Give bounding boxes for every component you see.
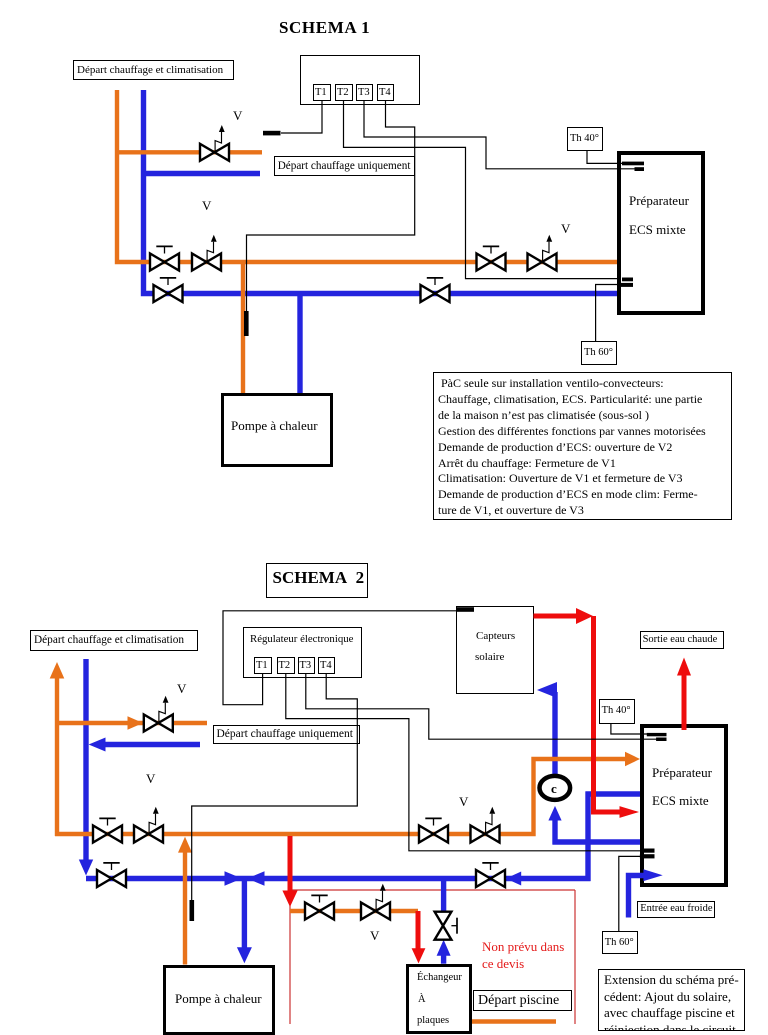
regulator box (schema 1) <box>300 55 420 105</box>
valve motorized V2 (schema 1) <box>528 235 557 271</box>
red note ce devis <box>482 956 524 972</box>
text Capteurs <box>476 630 515 642</box>
valve label V (schema2 branch valve) <box>177 681 186 697</box>
pipe orange drop to heat pump (schema 1) <box>241 262 245 393</box>
red zone border Non prevu (top edge) <box>290 889 575 891</box>
red zone border Non prevu (right edge) <box>574 890 576 1026</box>
wire T3 to tank upper sensor (schema 1) <box>364 100 636 169</box>
red note Non prevu dans <box>482 939 564 955</box>
valve manual on orange main left (schema 1) <box>150 246 179 270</box>
tank connection tick upper-long (schema 2) <box>647 733 667 736</box>
valve motorized orange near tank (schema 2) <box>471 807 500 843</box>
label Depart chauffage et climatisation (schema 1) <box>73 60 234 80</box>
sensor input T1 (schema 2) <box>254 657 272 674</box>
tank connection tick upper-short (schema 1) <box>635 167 645 171</box>
pipe blue branch arrow left (schema 2) <box>89 738 200 752</box>
sensor input T1 (schema 1) <box>313 84 331 101</box>
thermostat Th 60deg (schema 1) <box>581 341 617 365</box>
sensor bulb on T1 wire (schema 1) <box>263 131 281 136</box>
text Echangeur <box>417 972 462 983</box>
tank connection tick lower-a (schema 2) <box>643 849 654 853</box>
valve label V (schema2 valve near tank) <box>459 794 468 810</box>
pipe red drop from main to pool loop (schema 2) <box>282 836 297 907</box>
pipe orange riser arrow up (schema 2) <box>50 662 65 836</box>
sensor input T4 (schema 1) <box>377 84 394 101</box>
tank connection tick lower-b (schema 2) <box>640 854 655 858</box>
pipe blue main (schema 2) <box>86 876 591 881</box>
valve manual on blue main left (schema 2) <box>97 863 126 887</box>
junction arrow right on blue main (schema 2) <box>225 871 243 885</box>
annotation box Extension du schema <box>598 969 745 1031</box>
sensor input T2 (schema 1) <box>335 84 353 101</box>
valve manual on orange main left (schema 2) <box>93 818 122 842</box>
pipe blue tank to solar pump (schema 2) <box>553 839 641 844</box>
wire Th60 to tank (schema 2) <box>619 856 643 931</box>
wire Th60 to tank (schema 1) <box>596 285 619 342</box>
solar panel box Capteurs solaire <box>456 606 534 694</box>
sensor input T3 (schema 2) <box>298 657 315 674</box>
text A <box>418 994 426 1005</box>
text ECS mixte (schema 1) <box>629 222 686 238</box>
valve label V (schema2 pool valve) <box>370 928 379 944</box>
pipe orange supply riser and main (schema 1) <box>117 90 617 262</box>
pipe blue solar loop upper (schema 2) <box>537 682 557 775</box>
valve motorized V1 (schema 1) <box>192 235 221 271</box>
valve label V (schema1 main valve V1) <box>202 198 211 214</box>
valve motorized on branch (schema 1) <box>200 125 229 161</box>
valve manual on pool loop (schema 2) <box>305 895 334 919</box>
wire Th40 to tank (schema 2) <box>611 724 648 734</box>
pipe orange branch to heating only (schema 1) <box>117 150 262 154</box>
valve manual on blue main left (schema 1) <box>154 278 183 302</box>
label Depart chauffage et climatisation (schema 2) <box>30 630 198 651</box>
tank Preparateur ECS mixte (schema 2) <box>640 724 728 887</box>
heat pump box Pompe a chaleur (schema 1) <box>221 393 333 467</box>
label Entree eau froide <box>637 901 715 918</box>
wire T3 to tank upper sensor (schema 2) <box>306 673 657 739</box>
label Depart chauffage uniquement (schema 2) <box>213 725 360 744</box>
pipe orange pool bottom (schema 2) <box>472 1019 556 1024</box>
sensor input T4 (schema 2) <box>318 657 335 674</box>
valve motorized on pool loop (schema 2) <box>361 884 390 920</box>
heat exchanger box Echangeur a plaques <box>406 964 472 1034</box>
pipe blue return riser arrow down (schema 2) <box>79 659 93 876</box>
wire T4 to pipe sensor (schema 2) <box>192 673 358 900</box>
tank Preparateur ECS mixte (schema 1) <box>617 151 705 315</box>
text Pompe a chaleur (schema 2) <box>175 991 262 1007</box>
text ECS mixte (schema 2) <box>652 793 709 809</box>
tank connection tick upper-short (schema 2) <box>656 738 666 742</box>
pipe blue tank return riser (schema 2) <box>585 792 590 882</box>
wire T4 to pipe sensor (schema 1) <box>247 100 415 311</box>
valve manual on blue main right (schema 2) <box>476 863 521 887</box>
thermostat Th 40deg (schema 1) <box>567 127 603 151</box>
pipe blue drop to heat pump (schema 2) <box>237 879 252 964</box>
valve manual on orange main right (schema 1) <box>477 246 506 270</box>
pipe blue cold water inlet (schema 2) <box>629 869 663 917</box>
valve motorized on branch (schema 2) <box>144 696 173 732</box>
valve vertical to exchanger (schema 2) <box>435 912 457 940</box>
text Regulateur electronique <box>250 633 353 645</box>
pipe orange heat pump riser (schema 2) <box>178 837 192 965</box>
sensor input T2 (schema 2) <box>277 657 295 674</box>
text Pompe a chaleur (schema 1) <box>231 418 318 434</box>
pipe blue drop to heat pump (schema 1) <box>297 294 302 394</box>
pipe blue return riser and main (schema 1) <box>144 90 618 294</box>
pipe orange main to tank (schema 2) <box>55 752 640 834</box>
pipe orange branch heating only (schema 2) <box>57 716 207 730</box>
text Preparateur (schema 1) <box>629 193 689 209</box>
thermostat Th 60deg (schema 2) <box>602 931 638 954</box>
tank connection tick upper-long (schema 1) <box>622 162 644 166</box>
wire T1 to solar sensor (schema 2) <box>223 611 456 705</box>
pipe blue solar loop lower (schema 2) <box>548 806 561 845</box>
valve label V (schema1 valve V2) <box>561 221 570 237</box>
pipe red hot water outlet (schema 2) <box>677 658 691 731</box>
annotation box (schema 1) <box>433 372 732 520</box>
sensor input T3 (schema 1) <box>356 84 373 101</box>
svg-text:c: c <box>551 781 557 796</box>
valve manual orange near tank (schema 2) <box>419 818 448 842</box>
pipe sensor probe (schema 1) <box>244 311 249 336</box>
pipe blue branch (schema 1) <box>144 171 261 176</box>
text Preparateur (schema 2) <box>652 765 712 781</box>
pipe sensor probe (schema 2) <box>190 900 195 921</box>
pipe blue into tank mid (schema 2) <box>586 791 641 796</box>
pipe red solar flow (schema 2) <box>534 608 640 818</box>
pipe blue drop to exchanger valve (schema 2) <box>441 879 446 914</box>
wire T2 to tank lower sensor (schema 2) <box>286 673 646 851</box>
label Depart chauffage uniquement (schema 1) <box>274 156 415 177</box>
label Depart piscine <box>473 990 572 1011</box>
text solaire <box>475 651 504 663</box>
title SCHEMA 1 <box>279 18 370 38</box>
controller box Regulateur electronique (schema 2) <box>243 627 362 678</box>
valve manual on blue main right (schema 1) <box>421 278 450 302</box>
solar sensor dash on Capteurs box <box>456 607 474 612</box>
wire T2 to tank lower sensor (schema 1) <box>344 100 622 279</box>
tank connection tick lower-a (schema 1) <box>622 278 633 282</box>
text plaques <box>417 1015 449 1026</box>
red zone border Non prevu (left edge) <box>289 890 291 1026</box>
wire T1 to outdoor sensor (schema 1) <box>281 100 322 133</box>
tank connection tick lower-b (schema 1) <box>619 283 633 287</box>
wire Th40 to tank (schema 1) <box>587 151 622 163</box>
valve label V (schema1 branch valve) <box>233 108 242 124</box>
pipe blue exchanger outlet arrow up (schema 2) <box>437 940 451 964</box>
valve label V (schema2 main valve) <box>146 771 155 787</box>
pipe orange pool loop horizontal (schema 2) <box>290 909 418 913</box>
label Sortie eau chaude <box>640 631 724 649</box>
circulator pump c (schema 2) <box>540 776 571 800</box>
thermostat Th 40deg (schema 2) <box>599 699 635 724</box>
pipe red drop to exchanger (schema 2) <box>412 911 426 963</box>
heat pump box Pompe a chaleur (schema 2) <box>163 965 275 1035</box>
valve motorized on orange main (schema 2) <box>134 807 163 843</box>
title box SCHEMA 2 <box>266 563 368 598</box>
junction arrow left on blue main (schema 2) <box>247 871 265 885</box>
